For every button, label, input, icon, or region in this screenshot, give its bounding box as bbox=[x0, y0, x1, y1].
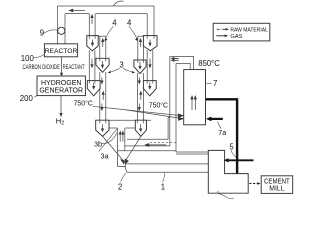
svg-text:2: 2 bbox=[118, 182, 122, 191]
leader 9 bbox=[44, 30, 58, 33]
svg-text:9: 9 bbox=[40, 29, 44, 38]
thick arrow 7a into vessel shaft bbox=[211, 118, 223, 120]
svg-text:750°C: 750°C bbox=[74, 100, 93, 108]
wire upper horizontal duct bottom line bbox=[118, 150, 177, 152]
leader 200 bbox=[34, 91, 37, 98]
calciner vessel 7 bbox=[184, 70, 206, 125]
arrow down inside C3R bbox=[149, 83, 151, 87]
wire inlet cap C1R bbox=[138, 35, 144, 37]
cement mill box bbox=[261, 176, 293, 194]
arrows: small flow arrows bbox=[60, 9, 197, 164]
wire C4 chamber ceiling bbox=[97, 119, 151, 121]
wire tall duct top inner bbox=[176, 63, 190, 69]
head leader 4 right bbox=[135, 38, 138, 41]
svg-text:MILL: MILL bbox=[269, 186, 284, 193]
small left-arrow dashes in tall duct elbow bbox=[173, 57, 178, 59]
cyclone C3R bbox=[143, 81, 156, 96]
leader 4 left bbox=[106, 26, 114, 39]
double up arrows central riser bbox=[119, 134, 121, 142]
wire central riser duct inner left line bbox=[124, 128, 126, 151]
svg-text:RAW MATERIAL: RAW MATERIAL bbox=[230, 27, 268, 33]
arrow up in riser C2L->C1L bbox=[102, 41, 104, 47]
arrow up in C1L exhaust duct bbox=[91, 17, 93, 24]
arrow down inside C4R bbox=[140, 124, 142, 129]
leader 3a bbox=[99, 129, 118, 152]
svg-text:3b: 3b bbox=[94, 139, 102, 148]
arrow down top of C2R downcomer bbox=[138, 78, 140, 82]
dashed arrow kiln to cement mill bbox=[249, 183, 257, 185]
wire left vertical outer to reactor bbox=[56, 6, 58, 44]
thick black gas line vessel to kiln bbox=[206, 98, 237, 173]
wire right vertical inner to cyclone C1R bbox=[146, 14, 148, 36]
wire chute from C4L to duct 1 bbox=[103, 136, 124, 161]
chute arrowhead right bbox=[125, 159, 128, 164]
wire material duct 1 top line bbox=[126, 163, 209, 165]
reactor box 100 bbox=[44, 44, 77, 57]
wire central riser duct left wall bbox=[118, 128, 126, 166]
arrowheads on small leaders bbox=[105, 38, 138, 73]
wire chute from C4R to duct 1 bbox=[125, 136, 141, 161]
svg-text:7a: 7a bbox=[218, 128, 226, 137]
arrow up mid of C2L downcomer bbox=[102, 94, 104, 100]
double up arrows inside vessel 7 bbox=[191, 99, 193, 111]
cyclone C2L bbox=[96, 58, 109, 72]
wire exhaust duct above cyclone C1L bbox=[89, 14, 95, 36]
leader 1 bbox=[163, 173, 165, 182]
svg-text:100: 100 bbox=[21, 54, 35, 63]
wire top outer header bbox=[57, 5, 154, 7]
dashed line in chamber duct bbox=[150, 141, 176, 143]
wire raw material transfer diagonal short bbox=[126, 110, 179, 118]
arrow down inside C2R bbox=[139, 62, 141, 67]
hydrogen generator box 200 bbox=[37, 76, 85, 96]
leader 3b bbox=[102, 133, 117, 144]
vortex finder stub C2L bbox=[100, 59, 106, 62]
vortex finder stub C4R bbox=[138, 120, 144, 123]
svg-text:REACTOR: REACTOR bbox=[45, 48, 78, 55]
cyclone C1L bbox=[87, 36, 98, 51]
cyclone vortex finder stubs bbox=[89, 36, 154, 123]
svg-text:CARBON DIOXIDE: CARBON DIOXIDE bbox=[23, 64, 61, 71]
legend raw material dash-dot arrow bbox=[217, 28, 226, 30]
arrow down inside C1L bbox=[92, 40, 94, 44]
wire downcomer C1R to C3R bbox=[147, 50, 153, 80]
vortex finder stub C1L bbox=[89, 36, 95, 39]
arrow down inside C4L bbox=[102, 124, 104, 129]
legend gas arrow head bbox=[225, 35, 228, 38]
dashed arrow head to cement mill bbox=[257, 182, 260, 185]
legend box bbox=[213, 23, 270, 41]
chute arrowhead left bbox=[121, 160, 125, 164]
arrow down inside C1R bbox=[149, 40, 151, 44]
wire tall duct top outer bbox=[170, 57, 194, 70]
svg-text:1: 1 bbox=[161, 182, 165, 191]
svg-text:3a: 3a bbox=[101, 152, 109, 161]
wire material duct 1 left cap bbox=[125, 164, 127, 172]
cyclone C1R bbox=[143, 36, 157, 51]
dashed lines bbox=[150, 141, 176, 143]
svg-text:3: 3 bbox=[119, 60, 123, 69]
arrow down top of C2L downcomer bbox=[101, 78, 103, 82]
svg-text:GAS: GAS bbox=[230, 34, 242, 40]
wire tall duct right wall bbox=[175, 63, 177, 152]
svg-text:750°C: 750°C bbox=[149, 102, 168, 110]
leader 7 bbox=[207, 82, 212, 85]
arrowheads of raw material transfer into vessel bbox=[178, 114, 183, 117]
cyclone C2R bbox=[134, 60, 146, 74]
thick gas line horizontal from vessel 7 bbox=[206, 98, 237, 100]
wire downcomer duct C2R to C4R bbox=[138, 73, 144, 120]
wire downcomer duct C2L to C4L bbox=[100, 72, 106, 120]
arrow down in downcomer C1L bbox=[91, 59, 93, 66]
wire downcomer C1L to C3L bbox=[89, 50, 95, 80]
leader 2 bbox=[121, 173, 126, 182]
leader 3 left branch bbox=[110, 68, 120, 72]
head leader 3 left bbox=[108, 71, 111, 73]
legend texts bbox=[230, 27, 268, 40]
leader 3 right branch bbox=[123, 68, 133, 72]
arrow down inside C3L bbox=[93, 83, 95, 87]
svg-text:4: 4 bbox=[112, 18, 117, 27]
text CEMENT MILL bbox=[264, 179, 290, 193]
gas inlet circle 9 bbox=[58, 27, 65, 34]
cyclone C4R bbox=[135, 120, 146, 136]
leader 6 kiln bbox=[218, 191, 234, 199]
wire raw material transfer diagonal long bbox=[93, 106, 179, 115]
svg-text:REACTANT: REACTANT bbox=[63, 64, 85, 71]
leader lines for labels bbox=[34, 26, 236, 198]
svg-text:850°C: 850°C bbox=[198, 59, 220, 68]
arrow down reactor to hydrogen generator bbox=[61, 57, 63, 74]
svg-text:200: 200 bbox=[20, 94, 34, 103]
svg-text:4: 4 bbox=[127, 18, 132, 27]
wire inlet cap C1L bbox=[98, 35, 106, 37]
leader 5 bbox=[231, 150, 236, 157]
arrow left in chamber lower duct bbox=[148, 144, 166, 146]
vortex finder stub C1R bbox=[147, 36, 154, 39]
legend gas arrow line bbox=[216, 35, 225, 37]
wire material duct 1 bottom line bbox=[127, 171, 209, 173]
cyclone C3L bbox=[87, 81, 100, 96]
arrow up mid of C2R downcomer bbox=[140, 94, 142, 100]
vortex finder stub C3L bbox=[89, 81, 95, 84]
wire kiln inlet pair bottom bbox=[176, 153, 208, 155]
svg-text:7: 7 bbox=[213, 79, 217, 88]
head leader 4 left bbox=[105, 38, 108, 41]
thick arrow into kiln shaft bbox=[227, 159, 253, 161]
thick arrow into kiln head bbox=[224, 158, 229, 162]
arrow down lower C2L downcomer bbox=[101, 104, 103, 109]
wire right vertical outer to cyclone C1R bbox=[153, 6, 155, 36]
cyclone C4L bbox=[96, 120, 109, 136]
svg-text:5: 5 bbox=[229, 142, 234, 151]
arrow down lower C2R downcomer bbox=[138, 104, 140, 109]
wire top inner header left segment bbox=[65, 13, 89, 15]
arrow down to H2 bbox=[60, 96, 62, 114]
wire riser duct C2R to C1R bbox=[138, 36, 144, 60]
wire riser duct C2L to C1L bbox=[100, 36, 106, 58]
wire leader to top (8) bbox=[114, 1, 124, 6]
thick arrow 7a head bbox=[206, 117, 212, 122]
vortex finder stub C2R bbox=[138, 60, 144, 63]
wire top inner header right segment bbox=[96, 13, 148, 15]
svg-text:GENERATOR: GENERATOR bbox=[39, 88, 83, 95]
arrow up in riser C2R->C1R bbox=[140, 41, 142, 47]
arrow left on header bbox=[72, 9, 85, 11]
leader 100 bbox=[34, 54, 44, 57]
leader 4 right bbox=[129, 26, 137, 39]
wire left vertical inner to reactor bbox=[64, 14, 66, 44]
svg-text:HYDROGEN: HYDROGEN bbox=[41, 80, 81, 87]
legend raw material arrow head bbox=[226, 28, 229, 31]
wire tall duct left wall bbox=[169, 57, 171, 146]
wire upper horizontal duct top line bbox=[125, 145, 170, 147]
leader 7a bbox=[218, 121, 222, 128]
head leader 3 right bbox=[132, 71, 135, 73]
wire kiln inlet pair top bbox=[176, 151, 208, 153]
arrow down inside C2L bbox=[102, 61, 104, 66]
arrow down in downcomer C1R bbox=[149, 59, 151, 66]
thick gas line vertical to kiln bbox=[236, 98, 238, 173]
vortex finder stub C4L bbox=[100, 120, 106, 123]
box texts bbox=[39, 48, 83, 95]
vortex finder stub C3R bbox=[147, 81, 153, 84]
rotary kiln L-shaped body bbox=[208, 150, 248, 193]
